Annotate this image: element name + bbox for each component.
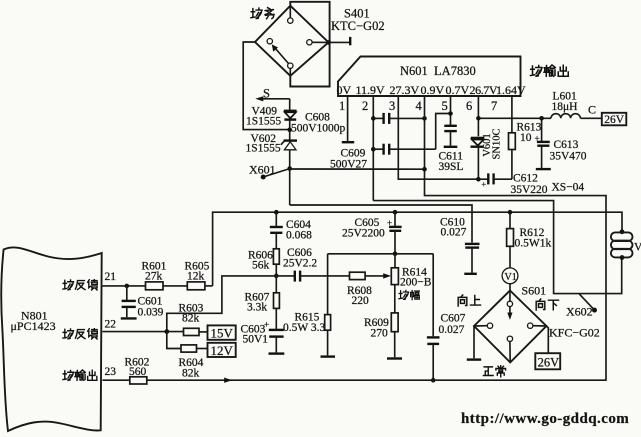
pin 6 wire [477,96,479,136]
pin 4 wire [425,96,607,381]
svg-text:500V1000p: 500V1000p [291,123,346,135]
svg-text:1.64V: 1.64V [496,83,526,97]
ground C611 [444,146,458,148]
capacitor C608 symbol [373,113,424,124]
capacitor C613 electrolytic [535,118,550,168]
junction V601/pin3 rail [476,177,481,182]
wire S line down to V409 [289,99,291,111]
junction rail/C604 [274,210,279,215]
svg-text:200−B: 200−B [400,277,432,289]
label 场幅 (field amplitude) [399,290,419,299]
box 26V bottom [535,353,560,369]
svg-text:V1: V1 [505,272,517,283]
wire output rail with arrow [147,378,606,383]
switch S401 contact top [288,18,293,23]
wire top vertex to top contact [289,6,291,18]
wire pin2 rail to yoke bottom [373,201,621,294]
svg-text:0.039: 0.039 [138,307,164,319]
ground C613 [536,168,551,170]
svg-text:35V220: 35V220 [511,184,548,196]
wire S601 right vertex to 26V [546,326,548,353]
capacitor C603 electrolytic [264,320,284,353]
wire R613 down [511,150,513,180]
svg-text:C612: C612 [513,173,538,185]
ground pin1 [342,141,354,143]
wire R615 column [327,254,329,315]
svg-text:+: + [482,180,487,189]
wire main feedback rail [213,212,622,286]
label 向下 (down) [536,299,558,310]
resistor R603 [184,328,200,335]
svg-text:X602: X602 [566,305,593,319]
svg-text:21: 21 [105,271,117,283]
resistor R615 [325,315,331,331]
svg-text:6: 6 [466,99,472,113]
ground R609 [387,357,402,359]
svg-text:3: 3 [389,99,395,113]
svg-text:25V2.2: 25V2.2 [283,258,317,270]
wire pin22 down to R604 [167,332,181,349]
svg-text:220: 220 [352,295,370,307]
switch S601 contact left [487,323,492,328]
wire between diodes [289,120,291,140]
svg-text:10: 10 [520,132,532,144]
svg-text:S601: S601 [522,284,547,298]
wire R601 to R605 [163,285,187,287]
label 场输出 (field output) [63,370,97,380]
svg-text:5: 5 [442,99,448,113]
junction C605/R614 [393,252,398,257]
junction diode node [287,128,292,133]
junction pin2/C609 [371,147,376,152]
resistor R602 [130,377,147,384]
svg-text:7: 7 [491,99,497,113]
pin 22 wire [102,331,183,333]
pin 21 wire [102,285,145,287]
junction pin2/C608 [371,116,376,121]
resistor R613 [509,133,516,150]
pin 1 wire [347,96,349,141]
svg-text:0.027: 0.027 [439,324,465,336]
svg-text:C: C [588,103,596,117]
svg-text:0.9V: 0.9V [421,83,445,97]
capacitor C604 [270,212,283,249]
capacitor C610 [465,244,480,273]
label 服务 (service) [251,8,274,19]
svg-text:0.5W1k: 0.5W1k [515,238,552,250]
wire bottom contact to bottom vertex [289,68,291,75]
pin 23 wire [102,379,129,381]
switch S601 contact bottom [507,336,512,341]
svg-text:0.7V: 0.7V [446,83,470,97]
wire junction to R615 and C607 [328,253,434,255]
junction C607/output rail [431,378,436,383]
svg-text:12k: 12k [187,271,205,283]
svg-text:50V1: 50V1 [243,334,269,346]
junction C601 [125,284,130,289]
svg-text:2: 2 [362,99,368,113]
diode V601 [471,138,485,179]
svg-text:KTC−G02: KTC−G02 [331,19,385,33]
svg-text:25V2200: 25V2200 [342,228,385,240]
wire R608 arrow to R614 wiper [365,273,391,278]
ground C601 [121,317,137,319]
switch S401 rotary diamond [255,6,329,76]
inductor L601 [551,114,580,119]
wire right contact to right vertex [312,41,329,43]
svg-text:18μH: 18μH [552,101,578,113]
resistor R608 [350,272,366,279]
resistor R607 [274,276,280,329]
svg-text:22: 22 [105,319,117,331]
box 12V [208,343,236,358]
svg-text:12V: 12V [211,343,234,358]
svg-text:11.9V: 11.9V [356,83,386,97]
junction pin22 [164,329,169,334]
wire C609 up to pin5 [436,114,451,150]
svg-text:26.7V: 26.7V [470,83,498,97]
svg-text:C613: C613 [554,139,579,151]
svg-text:V: V [634,242,641,254]
svg-text:27.3V: 27.3V [390,83,420,97]
wire R604 to 12V [197,348,208,350]
pin numbers 1-7 [339,99,497,113]
svg-text:0V: 0V [337,83,352,97]
svg-text:270: 270 [371,328,389,340]
wire right contact to right vertex [533,325,547,327]
ground R615 [321,355,336,357]
wire S601 left vertex to ground [473,326,475,358]
switch S401 wiper arrow [272,44,289,63]
resistor R604 [181,345,197,352]
svg-text:82k: 82k [182,313,200,325]
junction pin4/C608 [422,116,427,121]
ground C603 [269,352,285,354]
diode V409 [284,111,297,120]
svg-text:X601: X601 [249,163,276,177]
junction pin5 [448,111,453,116]
switch S401 contact left [267,39,272,44]
svg-text:35V470: 35V470 [550,151,587,163]
wire rail from diode column to C610 [290,205,472,243]
svg-text:560: 560 [129,366,147,378]
svg-text:XS−04: XS−04 [552,182,585,194]
junction R606/R607 [274,274,279,279]
svg-text:27k: 27k [145,271,163,283]
wire from diamond left vertex down to diode junction [243,42,288,130]
wire bottom contact to vertex [509,342,511,363]
terminal stub [349,37,351,45]
pin 3 wire [398,96,478,179]
svg-text:http://www.go-gddq.com: http://www.go-gddq.com [461,411,629,427]
wire left vertex to left contact [474,325,487,327]
svg-text:23: 23 [105,366,117,378]
svg-text:KFC−G02: KFC−G02 [549,326,600,340]
resistor R601 [146,282,164,290]
pin voltage labels [337,83,527,97]
connector X601 stub [261,169,289,180]
label 向上 (up) [458,295,480,306]
switch S601 contact top [507,301,512,306]
ground S601 left [467,358,481,360]
resistor R609 [391,313,398,332]
svg-text:3.3k: 3.3k [247,302,267,314]
svg-text:0.5W 3.3: 0.5W 3.3 [283,322,326,334]
wire X601 to pin4 [290,168,425,170]
switch S601 wiper arrow [507,307,512,320]
wire R603 to 15V [199,331,208,333]
svg-text:C607: C607 [441,313,466,325]
wire L601 to 26V [580,117,601,119]
diode V602 (points up) [281,141,297,150]
pin 2 wire [372,96,374,201]
wire V1 to S601 [509,284,511,291]
IC N801 body [1,247,101,431]
junction yoke top [620,229,625,234]
capacitor C609 symbol [373,144,435,155]
svg-text:15V: 15V [211,326,234,341]
box 26V top [602,113,627,126]
resistor R605 [187,282,205,290]
wire top vertex to top contact [509,291,511,302]
junction rail/R612 [508,210,513,215]
junction pin4/X601 line [422,167,427,172]
switch S601 diamond [474,291,546,363]
wire S with left arrow [255,96,289,101]
svg-text:0.068: 0.068 [286,230,312,242]
wire V602 to X601 junction [289,150,291,205]
label 场反馈 (field feedback) [63,329,97,339]
capacitor C606 [276,271,349,282]
svg-text:26V: 26V [604,114,625,126]
potentiometer R614 [391,254,398,313]
wire pin22 net up to R606 junction [167,276,276,332]
switch S401 contact right [307,40,312,45]
svg-text:μPC1423: μPC1423 [11,319,56,333]
svg-text:1: 1 [339,99,345,113]
resistor R612 [507,212,514,268]
resistor R606 [273,249,279,264]
capacitor C605 electrolytic [387,212,402,254]
wire R609 to ground [394,332,396,358]
svg-text:82k: 82k [182,368,200,380]
wire R606 to junction [275,264,277,276]
capacitor C601 [122,286,136,317]
wire pin6 to L601 [478,117,551,119]
label 正常 (normal) [483,366,505,377]
IC N601 LA7830 body [338,57,521,97]
svg-text:4: 4 [416,99,423,113]
meter V1 [502,268,518,284]
box 15V [208,325,236,340]
label 场反馈 (field feedback) [63,280,97,290]
svg-text:0.027: 0.027 [441,227,467,239]
capacitor C611 [444,126,457,146]
svg-text:39SL: 39SL [439,161,464,173]
yoke coil V [611,232,633,257]
svg-text:N601 LA7830: N601 LA7830 [400,64,476,78]
junction pin6 [476,116,481,121]
wire from switch to terminal [329,41,351,43]
connector X602 [579,294,597,313]
junction X601 node [287,166,292,171]
svg-text:26V: 26V [538,355,560,369]
junction C613 [539,116,544,121]
svg-text:1S1555: 1S1555 [246,143,281,155]
svg-text:SN10C: SN10C [492,129,503,160]
svg-text:1S1555: 1S1555 [246,116,281,128]
wire R615 to ground [327,330,329,355]
junction yoke bottom [620,255,625,260]
svg-text:56k: 56k [252,260,270,272]
capacitor C607 [427,254,440,380]
label 场输出 (field output) [531,65,569,76]
wire R605 to rail corner [205,285,213,287]
pin 5 wire [450,96,452,125]
junction rail/C605 [393,210,398,215]
switch S401 contact bottom [288,63,293,68]
pin 7 wire [511,96,513,133]
switch S601 contact right [528,323,533,328]
ground C610 [464,273,477,275]
switch S401 housing rectangle [290,2,329,87]
capacitor C612 [478,173,512,189]
junction at switch right vertex [326,40,331,45]
